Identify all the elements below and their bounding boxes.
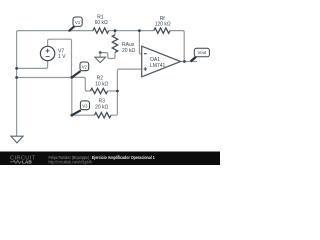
flag V1	[70, 26, 75, 30]
footer bar	[0, 152, 220, 166]
voltage source V7	[40, 46, 54, 60]
node dot: RAux tap on top wire	[114, 29, 117, 32]
wire: rail to input node row	[17, 77, 72, 79]
flag V3	[72, 110, 81, 115]
svg-text:60 kΩ: 60 kΩ	[95, 20, 108, 26]
svg-text:LM741: LM741	[150, 63, 166, 69]
svg-text:LAB: LAB	[22, 160, 32, 165]
node dot: input node	[70, 76, 73, 79]
wire: Rf right lead and drop to output row	[170, 31, 184, 62]
svg-text:RAux: RAux	[122, 42, 135, 48]
svg-text:Ejercicio Amplificador Operaci: Ejercicio Amplificador Operacional 1	[92, 155, 155, 160]
wire: op-amp output row	[181, 61, 197, 63]
resistor R3	[95, 113, 111, 118]
wire: V7 minus lead down and left to rail	[17, 61, 48, 69]
wire: R2 right lead to riser	[108, 90, 118, 92]
svg-text:Vout: Vout	[197, 50, 207, 55]
resistor RAux (vertical)	[112, 35, 117, 53]
resistor R2	[90, 88, 107, 93]
op-amp U1 OA1 LM741	[142, 46, 181, 77]
wire: top horizontal R1 right to Rf left	[109, 30, 154, 32]
svg-text:120 kΩ: 120 kΩ	[155, 22, 171, 28]
wire: left ground rail vertical	[16, 32, 18, 136]
svg-text:20 kΩ: 20 kΩ	[95, 105, 108, 111]
node dot: inverting branch on top wire	[138, 29, 141, 32]
node dot: output junction	[183, 60, 186, 63]
flag Vout	[191, 57, 196, 62]
wire: jog from input node down to R2	[72, 77, 91, 91]
svg-text:V2: V2	[82, 65, 88, 70]
ground (RAux)	[99, 51, 102, 54]
wire: inverting input branch from top wire	[139, 31, 141, 54]
resistor Rf	[154, 28, 170, 33]
wire: RAux jog to ground	[100, 52, 115, 58]
node dot: V7 minus on rail	[15, 67, 18, 70]
wire: V7 plus lead up-over-down to input node	[48, 39, 72, 77]
wire: RAux top lead	[114, 31, 116, 35]
svg-text:V3: V3	[82, 104, 88, 109]
node dot: R2 to riser	[116, 90, 119, 93]
wire: input node down to R3 row	[72, 77, 95, 115]
node dot: V3 node	[70, 114, 73, 117]
svg-text:20 kΩ: 20 kΩ	[122, 48, 135, 54]
svg-text:V1: V1	[75, 20, 81, 25]
svg-text:R2: R2	[97, 75, 104, 81]
svg-text:10 kΩ: 10 kΩ	[95, 82, 108, 88]
ground (main, bottom left)	[16, 135, 18, 137]
wire: R3 right lead to plus-input riser	[111, 69, 142, 115]
node dot: row on rail	[15, 76, 18, 79]
svg-text:1 V: 1 V	[58, 54, 66, 60]
svg-text:http://circuitlab.com/c/5gd4h: http://circuitlab.com/c/5gd4h	[49, 159, 93, 164]
resistor R1	[93, 28, 109, 33]
flag V2	[72, 71, 81, 77]
wire: top horizontal from left rail to R1	[17, 31, 93, 33]
